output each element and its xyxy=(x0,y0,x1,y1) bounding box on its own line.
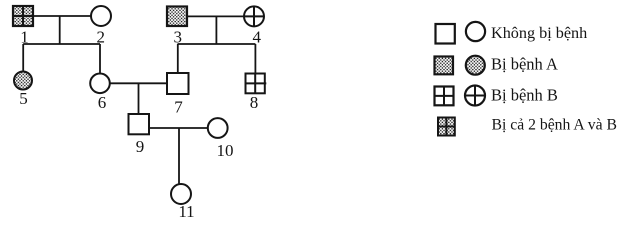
wire marriage line 3-4 xyxy=(187,15,244,17)
svg-text:Bị cả 2 bệnh A và B: Bị cả 2 bệnh A và B xyxy=(492,116,617,133)
legend symbol: unaffected circle xyxy=(466,22,485,41)
individual 10: female unaffected (circle) xyxy=(208,118,228,138)
individual 1: male affected with both diseases (stippled + quartered square) xyxy=(13,6,33,26)
legend symbol: unaffected square xyxy=(436,24,455,44)
wire sibship bar family 1-2 xyxy=(23,43,100,45)
wire descent from couple 6-7 xyxy=(138,83,140,114)
svg-text:3: 3 xyxy=(173,28,182,47)
wire marriage line 9-10 xyxy=(149,127,208,129)
svg-text:1: 1 xyxy=(20,28,29,47)
individual 5: female affected disease A (stippled circle) xyxy=(14,72,32,90)
individual 7: male unaffected (square) xyxy=(167,73,189,94)
wire descent from couple 3-4 xyxy=(215,16,217,44)
svg-text:Bị bệnh A: Bị bệnh A xyxy=(491,54,558,73)
svg-text:7: 7 xyxy=(174,98,183,117)
wire drop to individual 7 xyxy=(177,44,179,73)
svg-text:5: 5 xyxy=(19,89,28,108)
svg-text:11: 11 xyxy=(178,202,194,220)
individual 6: female unaffected (circle) xyxy=(90,74,110,94)
svg-text:4: 4 xyxy=(252,28,261,47)
svg-text:9: 9 xyxy=(136,137,145,156)
svg-text:8: 8 xyxy=(250,93,259,112)
svg-text:6: 6 xyxy=(98,93,107,112)
legend symbol: disease A square (stippled) xyxy=(435,57,454,75)
individual 9: male unaffected (square) xyxy=(129,114,150,134)
svg-text:Không bị bệnh: Không bị bệnh xyxy=(491,24,587,42)
wire sibship bar family 3-4 xyxy=(178,43,256,45)
wire drop to individual 5 xyxy=(22,44,24,72)
legend symbol: disease B circle (cross) xyxy=(465,86,485,106)
legend symbol: disease B square (quartered) xyxy=(435,87,454,106)
individual 11: female unaffected (circle) xyxy=(171,184,191,204)
svg-text:Bị bệnh B: Bị bệnh B xyxy=(491,86,558,105)
individual 3: male affected disease A (stippled square) xyxy=(167,7,187,27)
wire descent from couple 1-2 xyxy=(59,16,61,44)
individual 4: female affected disease B (circle with cross) xyxy=(244,6,264,26)
individual 2: female unaffected (circle) xyxy=(91,6,111,26)
wire drop to individual 8 xyxy=(254,44,256,74)
wire drop to individual 11 xyxy=(178,128,180,184)
individual 8: male affected disease B (quartered square) xyxy=(246,74,267,94)
legend symbol: disease A circle (stippled) xyxy=(466,56,485,75)
wire marriage line 1-2 xyxy=(33,15,91,17)
svg-text:10: 10 xyxy=(217,141,234,160)
wire marriage line 6-7 xyxy=(110,82,168,84)
legend symbol: both diseases square (stippled + quartered) xyxy=(438,118,455,136)
wire drop to individual 6 xyxy=(99,44,101,74)
svg-text:2: 2 xyxy=(96,28,105,47)
